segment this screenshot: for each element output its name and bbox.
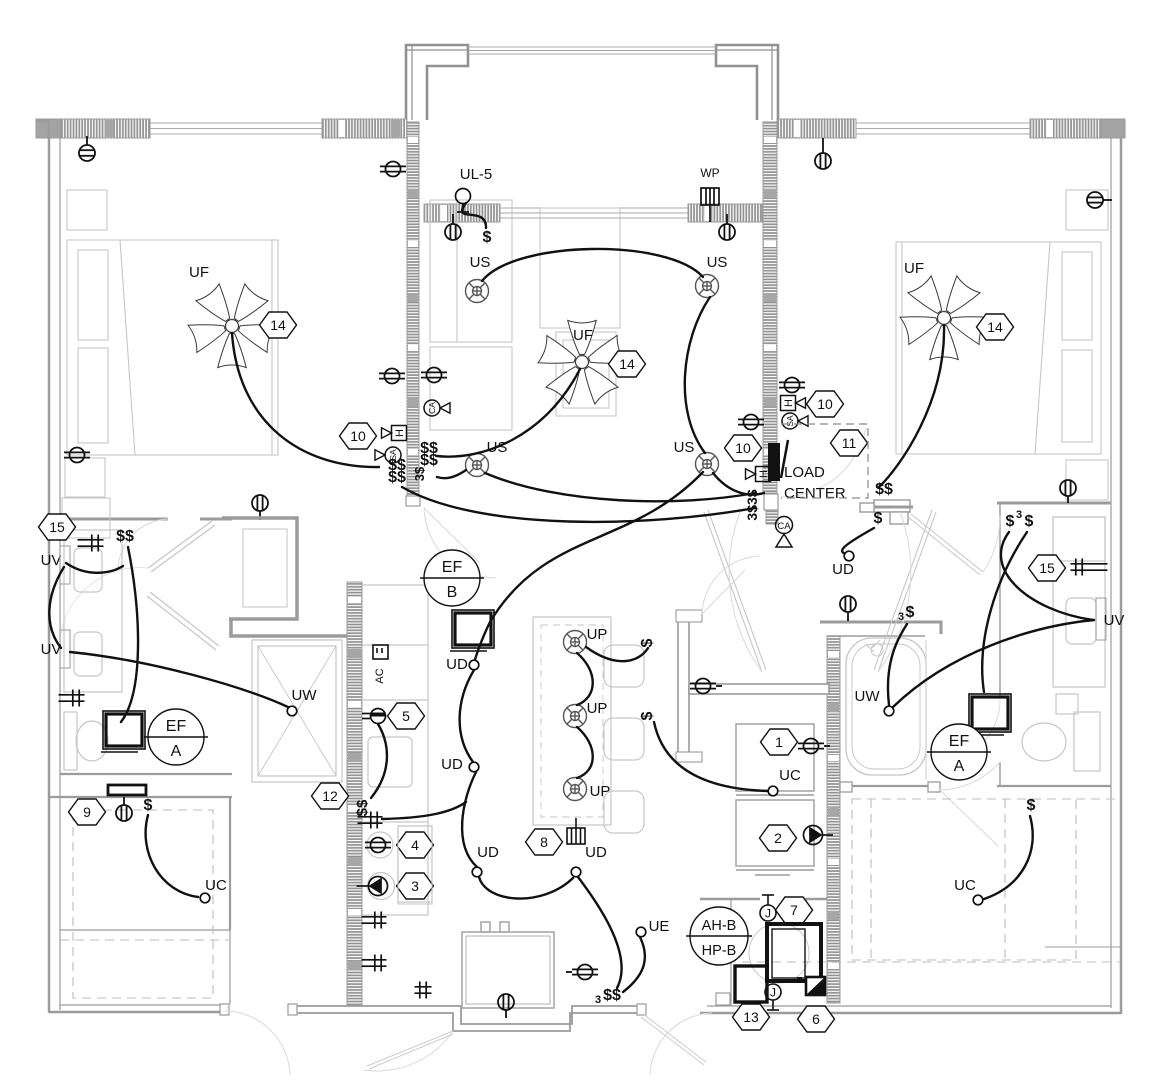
svg-text:H: H [783, 399, 795, 407]
wire fan1 to switches [232, 333, 379, 467]
svg-text:A: A [954, 758, 965, 775]
svg-text:AC: AC [374, 668, 386, 683]
wall B door jamb [764, 494, 778, 510]
wall bump-out bottom-left [424, 204, 500, 222]
note tag 14 [260, 312, 297, 338]
svg-text:J: J [765, 907, 771, 921]
svg-text:3$3$: 3$3$ [744, 489, 760, 520]
GFI left bath 2 [59, 690, 85, 707]
svg-text:HP-B: HP-B [702, 943, 737, 959]
wire switch to UC room1 [654, 722, 768, 791]
svg-text:UD: UD [441, 756, 463, 773]
tag EF B [424, 550, 480, 606]
wall closet pillar [222, 518, 347, 636]
svg-text:UE: UE [649, 918, 670, 935]
svg-text:UV: UV [1104, 612, 1125, 629]
note tag 14 [977, 314, 1014, 340]
svg-text:3$: 3$ [412, 466, 427, 481]
junction box J top [760, 895, 776, 921]
svg-text:8: 8 [540, 834, 548, 850]
svg-text:6: 6 [812, 1011, 820, 1027]
faucet tub [866, 640, 883, 656]
svg-text:$$: $$ [603, 987, 621, 1004]
wire switch to UC patio [984, 816, 1033, 899]
appliance circle [367, 832, 393, 858]
svg-text:J: J [770, 986, 776, 1000]
window top-left [150, 123, 322, 134]
svg-text:$: $ [874, 510, 883, 527]
wall bump-out bottom-right [688, 204, 762, 222]
svg-text:5: 5 [402, 708, 410, 724]
nightstand right bottom [1066, 460, 1108, 500]
ceiling fan UF bedroom2 [900, 276, 988, 360]
receptacle closet pillar [252, 495, 268, 520]
wire UV2 to UW [70, 652, 288, 707]
node UD living [844, 551, 854, 561]
note tag 8 [526, 829, 563, 855]
wire switch to UV right [1001, 532, 1093, 620]
exhaust fan EF-A right unit [967, 694, 1011, 735]
GFI right bath [1071, 559, 1108, 576]
note tag 10 [807, 391, 844, 417]
receptacle tub wall [840, 596, 856, 621]
nightstand left bottom [65, 458, 105, 497]
bedroom2 door diagonal [940, 762, 1000, 846]
svg-text:UF: UF [573, 327, 593, 344]
wire UW to UV right [893, 620, 1094, 707]
pendant UP 2 [564, 705, 587, 728]
node UD 1 [469, 660, 479, 670]
svg-text:$: $ [144, 797, 153, 814]
pendant UP 3 [564, 778, 587, 801]
svg-text:$: $ [1025, 513, 1034, 530]
bedroom2 wall jambs [840, 782, 940, 792]
island [533, 617, 644, 833]
appliance circle 2 [368, 873, 395, 900]
receptacle bump-out right [719, 214, 735, 240]
svg-text:CA: CA [427, 402, 437, 414]
note tag 3 [397, 873, 434, 899]
wire UV1-UV2 [49, 567, 64, 648]
counter black [108, 785, 146, 795]
wire US4 to wall switches [713, 473, 764, 495]
node UD 2 [469, 762, 479, 772]
wall rooms 1-2 dividers [736, 795, 814, 875]
svg-text:UF: UF [189, 264, 209, 281]
toilet right [1022, 712, 1100, 771]
exhaust fan EF-A left unit [101, 711, 145, 752]
receptacle wall A left [379, 369, 405, 384]
receptacle wall A right [421, 368, 447, 383]
svg-text:AH-B: AH-B [702, 918, 737, 934]
wall bottom left [49, 1005, 225, 1012]
tag EF A right [931, 724, 987, 780]
receptacle right bedroom [1087, 192, 1112, 208]
wall storage right [229, 797, 231, 930]
vanity light UV right [1096, 598, 1106, 640]
svg-text:EF: EF [442, 559, 463, 576]
wall tub top [820, 622, 941, 636]
tag AH-B HP-B [690, 907, 748, 965]
note tag 10 [340, 423, 377, 449]
porch door jambs [288, 1004, 646, 1015]
svg-text:US: US [707, 254, 728, 271]
svg-text:$: $ [906, 604, 915, 621]
wall left bath top [60, 518, 232, 521]
svg-text:UF: UF [904, 260, 924, 277]
svg-text:UC: UC [954, 877, 976, 894]
exhaust fan EF-B unit [450, 610, 494, 651]
hall door arc top [702, 556, 760, 614]
left door jamb [220, 1004, 229, 1015]
wall top-mid-left [322, 119, 407, 138]
thermostat H wall A [382, 426, 407, 441]
vanity right [1053, 517, 1105, 714]
vanity light UV2 [60, 630, 70, 668]
wall storage top [49, 796, 232, 798]
receptacle kitchen [365, 838, 391, 853]
svg-text:$$: $$ [875, 481, 893, 498]
GFI kitchen 2 [362, 912, 387, 929]
svg-text:SA: SA [785, 415, 795, 427]
load center door arc [781, 428, 866, 497]
svg-text:UP: UP [587, 626, 608, 643]
room2 box [736, 800, 814, 866]
wire hall run 2 [402, 487, 755, 522]
smoke detector US [466, 280, 489, 303]
window bump-out top [468, 47, 716, 54]
receptacle storage [116, 797, 132, 821]
wire switches to EF-A [121, 547, 138, 722]
wire fan2 to switches [437, 369, 580, 457]
wall B load-center [763, 122, 777, 493]
svg-text:12: 12 [322, 788, 338, 804]
wire UD4 to switches [578, 877, 622, 988]
shower left [252, 640, 342, 782]
wall right bath bottom [997, 785, 1111, 787]
sensor SA wall A [375, 447, 401, 463]
wall bump-out left [406, 45, 778, 120]
wire UL-5 to switch [462, 203, 486, 228]
note tag 12 [312, 783, 349, 809]
equipment half-dark square [806, 977, 825, 995]
wire UE to switches [623, 937, 645, 992]
note tag 15 [39, 514, 76, 540]
note tag 2 [760, 825, 797, 851]
svg-text:UD: UD [832, 561, 854, 578]
smoke detector US [466, 454, 489, 477]
pump room2 [804, 826, 834, 845]
svg-text:H: H [758, 470, 770, 478]
svg-text:UD: UD [446, 656, 468, 673]
receptacle top-right-mid [815, 138, 831, 169]
receptacle bump-out left [445, 214, 461, 240]
window bump-out bottom [500, 208, 688, 218]
svg-text:2: 2 [774, 830, 782, 846]
note tag 10 [725, 435, 762, 461]
door arc left bath [118, 519, 168, 570]
nightstand left top [67, 190, 107, 230]
svg-text:WP: WP [700, 166, 719, 180]
wall right outer [1111, 137, 1121, 1014]
sensor CA below load center [776, 517, 793, 548]
wall bedroom2 bath divider [852, 785, 928, 787]
wall bed2 entry [874, 506, 913, 509]
note tag 14 [609, 351, 646, 377]
storage dashed left [60, 810, 230, 998]
svg-text:14: 14 [619, 356, 635, 372]
note tag 5 [388, 703, 425, 729]
receptacle left wall [64, 448, 90, 463]
wire UW to switch [888, 624, 907, 705]
svg-text:US: US [674, 439, 695, 456]
wire US4 to EF-B [474, 472, 703, 663]
wire switch to EF-A right [982, 532, 1027, 692]
receptacle top-left [79, 136, 95, 161]
svg-text:US: US [470, 254, 491, 271]
kitchen counter [362, 585, 432, 915]
svg-text:UP: UP [590, 783, 611, 800]
svg-text:10: 10 [350, 428, 366, 444]
svg-text:CENTER: CENTER [784, 485, 846, 502]
svg-text:9: 9 [83, 804, 91, 820]
svg-text:EF: EF [166, 718, 187, 735]
window top-right [856, 123, 1030, 134]
thermostat H wall B [781, 396, 806, 411]
note tag 1 [761, 729, 798, 755]
svg-text:UD: UD [477, 844, 499, 861]
wall left bath bottom [60, 773, 232, 775]
node UW left [287, 706, 297, 716]
tub right [846, 638, 926, 780]
note tag 15 [1029, 555, 1066, 581]
wall top-mid-right [777, 119, 856, 138]
wall hall horizontal [689, 684, 829, 694]
svg-text:1: 1 [775, 734, 783, 750]
door arcs bottom [225, 1011, 712, 1075]
bed left [67, 240, 278, 455]
svg-text:11: 11 [842, 435, 857, 451]
dining table [462, 922, 554, 1008]
node UE [636, 927, 646, 937]
wall right bath top [997, 502, 1111, 505]
AC outlet box [373, 645, 388, 659]
dressers bedroom mid [430, 200, 620, 430]
svg-text:3: 3 [411, 878, 419, 894]
svg-text:10: 10 [817, 396, 833, 412]
note tag 9 [69, 799, 106, 825]
wire UD1-UD2 [460, 670, 474, 762]
tag EF A left [148, 709, 204, 765]
svg-text:$: $ [1027, 797, 1036, 814]
svg-text:UV: UV [41, 552, 62, 569]
closet diagonal doors left [60, 521, 219, 650]
svg-text:A: A [171, 743, 182, 760]
svg-text:UW: UW [855, 688, 881, 705]
junction box J bottom [765, 984, 781, 1010]
load center dashed box [781, 424, 868, 498]
GFI left bath [78, 535, 104, 552]
water heater small box [735, 966, 767, 1002]
node UD 3 [472, 867, 482, 877]
disposal [357, 877, 388, 896]
svg-text:H: H [394, 429, 406, 437]
wall left outer [36, 121, 60, 1013]
wire UV1 right [66, 563, 123, 573]
svg-text:UP: UP [587, 700, 608, 717]
GFI kitchen 3 [362, 955, 387, 972]
svg-text:$$: $$ [388, 469, 406, 486]
bedroom2 double doors [704, 510, 936, 672]
weatherproof receptacle WP [701, 188, 719, 222]
note tag 11 [831, 430, 868, 456]
sensor SA wall B [782, 413, 808, 429]
bedroom-mid door arc [424, 508, 496, 578]
load center panel [768, 443, 780, 481]
room1 closet box [736, 724, 814, 791]
svg-text:3: 3 [1016, 509, 1022, 521]
wire UP1-UP2 [577, 653, 593, 705]
wire UD3-UD4 [479, 877, 573, 899]
wire UP1 to switch [586, 647, 648, 661]
patio dashed right [742, 799, 1120, 962]
wall A bedroom1/bedroom-mid [407, 122, 419, 505]
svg-text:3: 3 [898, 611, 904, 623]
svg-text:UC: UC [205, 877, 227, 894]
bed2 door jambs [860, 500, 910, 524]
note tag 7 [776, 897, 813, 923]
special outlet island [567, 818, 585, 844]
wall hall vertical [678, 620, 689, 754]
svg-text:UC: UC [779, 767, 801, 784]
mech door jamb [716, 993, 730, 1005]
receptacle dining [566, 965, 598, 980]
wall top-right corner [1030, 119, 1125, 138]
wire US3 to switch [437, 470, 466, 478]
receptacle room1 [798, 739, 830, 754]
bed2 entry door leaf [908, 514, 983, 575]
svg-text:UW: UW [292, 687, 318, 704]
svg-text:EF: EF [949, 733, 970, 750]
dresser bedroom1 bottom [62, 498, 110, 538]
smoke detector US [696, 453, 719, 476]
receptacle hall [690, 679, 722, 694]
svg-text:7: 7 [790, 902, 798, 918]
wire switch to UC storage [146, 815, 198, 897]
svg-text:10: 10 [735, 440, 751, 456]
nightstand right top [1066, 190, 1108, 230]
svg-text:$$: $$ [354, 799, 371, 816]
wall right bath left [999, 503, 1001, 786]
right bath door arc [940, 700, 1000, 762]
node UD 4 [571, 867, 581, 877]
wall A end jamb [406, 496, 420, 506]
svg-text:4: 4 [411, 837, 419, 853]
pendant UP 1 [564, 631, 587, 654]
wall top-left [36, 119, 150, 138]
wall mech room [700, 899, 827, 1006]
node UC storage [200, 893, 210, 903]
thermostat H low wall B [746, 467, 771, 482]
svg-text:$$: $$ [116, 528, 134, 545]
receptacle wall B top [779, 378, 805, 393]
svg-text:$: $ [639, 711, 656, 720]
GFI island floor [415, 982, 432, 999]
receptacle bed2 top [1060, 480, 1076, 503]
sensor CA wall A [424, 400, 450, 416]
air handler unit [749, 923, 821, 983]
node UW right [884, 706, 894, 716]
svg-text:15: 15 [49, 519, 65, 535]
wall storage inner [60, 930, 230, 1004]
node UC room1 [768, 786, 778, 796]
ceiling light UL-5 [456, 189, 471, 204]
GFI kitchen 1 [358, 812, 383, 829]
note tag 4 [397, 832, 434, 858]
svg-text:$: $ [483, 229, 492, 246]
note tag 13 [733, 1004, 770, 1030]
wire US1-US2 [482, 249, 703, 281]
svg-text:14: 14 [270, 317, 286, 333]
svg-text:15: 15 [1039, 560, 1055, 576]
wall door jambs hall [676, 610, 702, 762]
note tag 6 [798, 1006, 835, 1032]
ceiling fan UF bedroom-mid [538, 320, 626, 404]
porch bottom center walls [293, 1006, 641, 1031]
svg-text:$$: $$ [420, 452, 438, 469]
svg-text:B: B [447, 584, 458, 601]
svg-text:$: $ [639, 638, 656, 647]
node UC patio [973, 895, 983, 905]
wire fan3 to switches [879, 325, 944, 487]
wire UP2-UP3 [577, 727, 593, 778]
vanity light UV1 [60, 546, 70, 584]
svg-text:14: 14 [987, 319, 1003, 335]
toilet left [64, 712, 108, 770]
ceiling fan UF bedroom1 [188, 284, 276, 368]
water heater [243, 529, 287, 607]
smoke detector US [696, 275, 719, 298]
svg-text:13: 13 [743, 1009, 759, 1025]
bed right [896, 242, 1101, 454]
svg-text:CA: CA [777, 521, 791, 532]
wall C kitchen [347, 582, 362, 1006]
vanity left [64, 530, 122, 692]
svg-text:UD: UD [585, 844, 607, 861]
receptacle wall B left [738, 415, 764, 430]
wall bottom right [700, 947, 1121, 1013]
wire hall run 1 [485, 473, 755, 501]
wire kitchen run [382, 802, 466, 819]
receptacle wall A top [380, 162, 406, 177]
wire dimmer down [371, 724, 387, 798]
wire US2-US4 [685, 297, 710, 453]
svg-text:LOAD: LOAD [784, 464, 825, 481]
receptacle porch [498, 994, 514, 1018]
svg-text:$: $ [1006, 513, 1015, 530]
svg-text:3: 3 [595, 994, 601, 1006]
svg-text:UL-5: UL-5 [460, 166, 493, 183]
wire UD2-UD3 [462, 772, 477, 867]
wall D bedroom2 [827, 636, 840, 1003]
dimmer kitchen [362, 709, 386, 724]
wire switch to UD [842, 528, 874, 555]
